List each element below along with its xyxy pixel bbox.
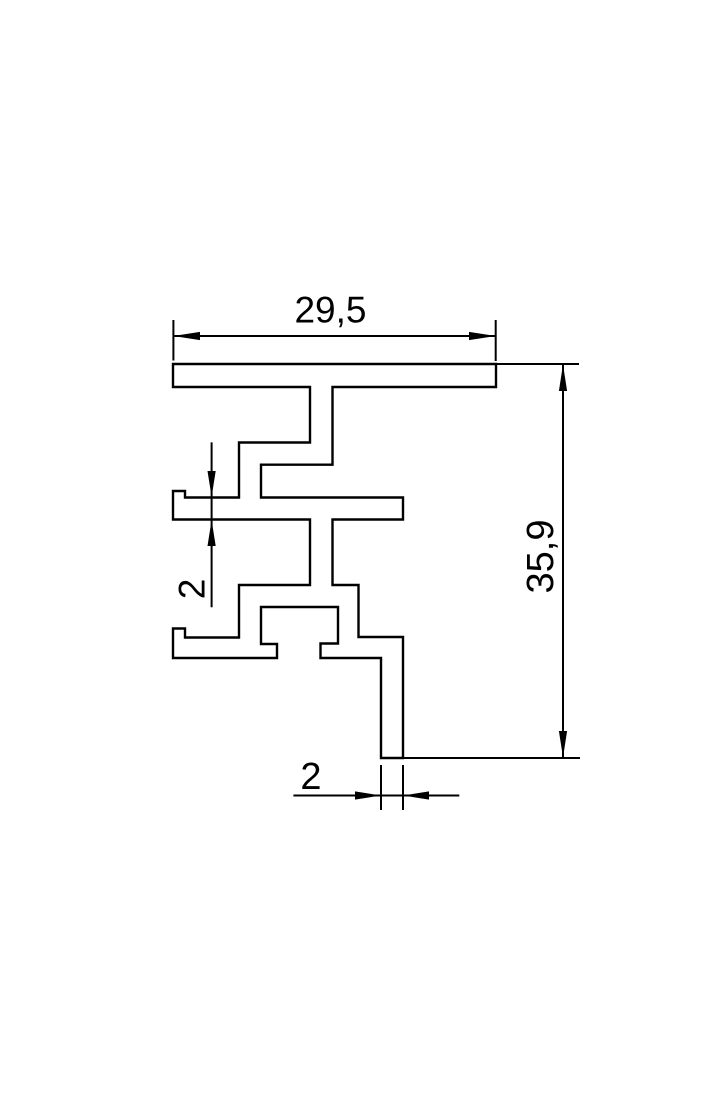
- profile outline (aluminium extrusion cross-section): [173, 364, 496, 758]
- dimension 2 bottom : arrowhead pointing left: [403, 791, 429, 799]
- dimension 2 (bottom, leg thickness) : extension line left: [380, 765, 382, 810]
- dimension 29,5 : arrowhead left: [173, 332, 200, 340]
- dimension 35,9 : extension line bottom: [404, 757, 580, 759]
- dimension 2 bottom : extension line right: [402, 765, 404, 810]
- dimension 35,9 : extension line top: [497, 363, 579, 365]
- svg-text:29,5: 29,5: [294, 290, 366, 331]
- dimension 35,9 : dimension line: [562, 365, 564, 758]
- dimension 2 bottom : dimension line: [293, 795, 459, 797]
- dimension 29,5 : dimension line: [173, 335, 495, 337]
- dimension 29,5 : extension line right: [495, 320, 497, 361]
- dimension 2 left : arrowhead down (to bar top): [208, 471, 216, 497]
- dimension 2 (left, middle bar thickness) : dimension line: [211, 442, 213, 607]
- svg-text:2: 2: [300, 756, 321, 798]
- dimension 35,9 : arrowhead bottom: [559, 731, 567, 758]
- dimension 29,5 : extension line left: [172, 320, 174, 361]
- svg-text:35,9: 35,9: [520, 520, 562, 594]
- dimension 2 left : arrowhead up (to bar bottom): [208, 520, 216, 546]
- dimension 29,5 : arrowhead right: [469, 332, 496, 340]
- svg-text:2: 2: [172, 579, 213, 600]
- dimension 2 bottom : arrowhead pointing right: [355, 791, 381, 799]
- dimension 35,9 : arrowhead top: [559, 365, 567, 392]
